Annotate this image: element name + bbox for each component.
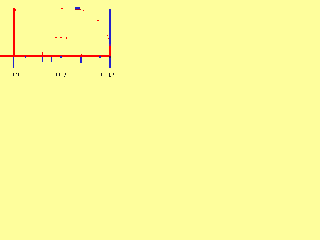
stem x=42 upper part (red, above axis) xyxy=(42,52,43,55)
red dot left of right line (107.5,35.7) xyxy=(107,35,108,36)
right vertical line lower part (red) xyxy=(109,46,110,57)
red label dash 1 xyxy=(55,37,57,38)
right vertical line upper part (blue) xyxy=(109,9,110,45)
tick label C apostrophe xyxy=(113,73,114,75)
stem at origin x=13 (blue, below axis) xyxy=(13,57,15,69)
tick label B bar 2 xyxy=(59,73,60,76)
tick x=25 (blue) xyxy=(25,56,26,58)
tick x=61 (blue) xyxy=(60,56,61,58)
title blob blue bar xyxy=(75,7,81,8)
x-axis (red horizontal axis) xyxy=(0,55,111,56)
tick label A bar 2 xyxy=(18,73,19,76)
stem x=81 lower part (blue, below axis) xyxy=(80,57,82,63)
right vertical line blend (violet transition) xyxy=(109,44,110,46)
tick x=100 (blue) xyxy=(99,56,100,58)
junction dark pixel at right axis end xyxy=(109,56,110,57)
tick label B colon lower dot xyxy=(64,76,65,77)
red dot left of right line (108.4,38.5) xyxy=(108,38,109,39)
tick label C bar xyxy=(101,73,102,76)
right stem below axis (blue) xyxy=(109,57,110,68)
red label dot 3 xyxy=(66,37,67,38)
title blob dark-red bar xyxy=(75,9,82,10)
red dot right of title blob xyxy=(83,10,84,11)
stem x=81 upper part (red, above axis) xyxy=(81,54,82,56)
stem x=42 lower part (blue, below axis) xyxy=(42,57,44,62)
red dot (98,20.5) xyxy=(97,20,98,21)
tick label A bar 1 xyxy=(13,73,14,76)
tick label C letter L vertical xyxy=(109,73,110,77)
tick label B colon upper dot xyxy=(65,73,66,74)
tick label A dot xyxy=(16,73,17,74)
y-axis (red vertical axis line at left) xyxy=(13,8,14,56)
y-axis arrowhead nub xyxy=(15,9,16,11)
stem x=51 (blue, below axis) xyxy=(51,57,52,62)
red label dash 2 xyxy=(60,37,62,38)
tick label C letter L foot xyxy=(110,76,112,77)
tick label B bar 1 xyxy=(56,73,57,76)
red dot (62,8.5) xyxy=(61,8,62,9)
